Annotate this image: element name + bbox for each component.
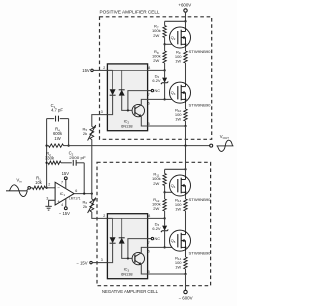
svg-text:1W: 1W — [175, 207, 181, 212]
transistor of IC2 — [132, 104, 144, 116]
wire output up to trimmer R5 — [91, 140, 93, 194]
capacitor C1 4.7pF — [55, 116, 57, 122]
wire gate lead Q4 — [165, 191, 177, 193]
wire +600V down — [185, 12, 187, 21]
wire C1 to output line vertical — [68, 119, 70, 146]
transistor Q5 STW9NB90 — [170, 230, 191, 251]
resistor R12 100k 2W — [163, 199, 166, 211]
wire photodiode cathode vertical — [121, 70, 123, 90]
resistor R2 330k — [48, 161, 61, 164]
wire -15V to opto IC3 pin3 — [92, 262, 107, 264]
wire output line — [69, 145, 210, 147]
wire photodiode rail to pin8 — [113, 69, 148, 71]
svg-text:2W: 2W — [153, 33, 159, 38]
node negative chain junction — [184, 168, 186, 170]
wire base to pin7 — [128, 91, 148, 111]
svg-text:4.7 pF: 4.7 pF — [51, 108, 63, 113]
svg-text:2W: 2W — [153, 181, 159, 186]
svg-text:Q4: Q4 — [171, 183, 176, 189]
node R4 right junction — [67, 144, 69, 146]
svg-text:+: + — [57, 199, 60, 204]
wire C2 right — [76, 162, 84, 164]
wire opto IC3 pin5 to bus — [148, 273, 186, 275]
pin 7 NC stub — [148, 238, 152, 240]
resistor R10 100 1W — [184, 109, 187, 121]
node pin6 gate junction — [163, 98, 165, 100]
wire opto IC3 pin6 to junction — [148, 246, 165, 248]
LED of IC2 — [110, 89, 116, 95]
node pin6 gate junction negative — [163, 246, 165, 248]
wire Vin to R1 — [31, 187, 33, 189]
svg-text:330k: 330k — [45, 156, 55, 161]
wire Q3 source down — [185, 103, 187, 109]
wire opto pin5 to bus — [148, 125, 186, 127]
node Q2 gate junction — [163, 43, 165, 45]
svg-text:5: 5 — [148, 270, 150, 274]
wire photodiode rail to pin8 — [113, 217, 148, 219]
transistor Q3 STW9NB90 — [170, 82, 191, 103]
wire chain to zener D2 — [164, 70, 166, 77]
svg-text:2: 2 — [48, 182, 50, 186]
svg-text:STW9NB90: STW9NB90 — [189, 103, 212, 108]
node inverting input junction — [45, 187, 47, 189]
node Vout terminal — [210, 144, 213, 147]
svg-text:Q3: Q3 — [171, 90, 176, 96]
node +600V terminal — [184, 9, 187, 12]
svg-text:NC: NC — [155, 237, 161, 241]
wire pin2 internal rail — [107, 217, 112, 219]
svg-text:1W: 1W — [175, 59, 181, 64]
svg-text:3: 3 — [46, 197, 48, 201]
svg-text:1W: 1W — [175, 265, 181, 270]
wire gate lead Q3 — [165, 98, 177, 100]
wire R1 to op-amp — [46, 187, 56, 189]
transistor Q4 STW9NB90 — [170, 175, 191, 196]
resistor R7 100k 2W — [163, 26, 166, 38]
wire R4 to junction — [64, 145, 69, 147]
wire chain top negative — [164, 169, 166, 173]
svg-text:− 15V: − 15V — [76, 260, 87, 265]
wire opto pin6 to junction — [148, 98, 165, 100]
resistor R14 100 1W — [184, 257, 187, 269]
trimmer R6 2k — [90, 199, 94, 212]
op-amp IC1 LM7171 — [55, 182, 74, 205]
svg-text:VOUT: VOUT — [220, 134, 229, 140]
svg-text:+600V: +600V — [178, 3, 191, 8]
svg-text:7: 7 — [61, 181, 63, 185]
wire Q4 drain up — [185, 169, 187, 175]
wire R2 to C2 — [61, 162, 72, 164]
node pin8 chain junction — [163, 69, 165, 71]
wire trimmer R5 to opto pin3 — [92, 115, 108, 127]
wire base to pin7 — [128, 239, 148, 259]
svg-text:Q2: Q2 — [171, 35, 176, 41]
node Q4 gate junction — [163, 191, 165, 193]
wire R11 to gate node — [164, 186, 166, 193]
wire pin2 internal rail — [107, 69, 112, 71]
wire LED cathode to pin3 — [107, 243, 112, 263]
wire R9 to Q3 drain — [185, 63, 187, 82]
node base junction — [127, 109, 129, 111]
wire LED anode vertical — [112, 70, 114, 89]
node trimmer bus junction — [91, 192, 93, 194]
wire C1 branch left — [47, 118, 55, 120]
wire to -600V terminal — [185, 274, 187, 290]
svg-text:3: 3 — [101, 110, 103, 114]
wire zener to pin6 node — [164, 83, 166, 100]
wire op-amp output — [74, 193, 92, 195]
wire bus to output line — [185, 126, 187, 146]
resistor R8 100k 2W — [163, 51, 166, 63]
node feedback left R4 junction — [45, 144, 47, 146]
svg-text:2: 2 — [103, 66, 105, 70]
wire C2 down to op-amp output — [83, 163, 85, 194]
optocoupler IC3 6N138 body — [107, 214, 147, 279]
resistor R4 600k 1W — [49, 144, 64, 147]
node C2 output junction — [83, 192, 85, 194]
svg-text:8: 8 — [148, 214, 150, 218]
svg-text:6.2V: 6.2V — [152, 78, 161, 83]
node rail junction — [184, 20, 186, 22]
wire output down to trimmer R6 — [91, 194, 93, 199]
svg-text:POSITIVE AMPLIFIER CELL: POSITIVE AMPLIFIER CELL — [100, 9, 160, 14]
node base junction — [127, 257, 129, 259]
svg-text:6.2V: 6.2V — [152, 226, 161, 231]
svg-text:1W: 1W — [54, 136, 60, 141]
wire Q5 source down — [185, 251, 187, 257]
svg-text:15V: 15V — [62, 171, 70, 176]
wire 15V to opto pin2 — [93, 69, 107, 71]
svg-text:NC: NC — [155, 89, 161, 93]
positive amplifier cell dashed box — [100, 17, 212, 140]
svg-text:8: 8 — [148, 66, 150, 70]
-15V supply terminal — [65, 199, 67, 207]
wire Q4 source down — [185, 196, 187, 199]
node output bus junction — [184, 144, 186, 146]
wire LED anode vertical — [112, 218, 114, 237]
wire trimmer R6 to opto IC3 pin2 — [92, 212, 108, 218]
resistor R9 100 1W — [184, 51, 187, 63]
wire LED cathode to pin3 — [107, 95, 112, 115]
wire chain to zener D3 — [164, 218, 166, 225]
wire photodiode anode to base node — [122, 243, 132, 258]
svg-text:−: − — [57, 185, 60, 190]
photodiode of IC2 — [119, 90, 125, 96]
wire chain top — [164, 21, 166, 25]
resistor R11 100k 2W — [163, 174, 166, 186]
wire Q2 drain to rail — [185, 21, 187, 27]
svg-text:IC1: IC1 — [60, 191, 66, 197]
wire zener to pin6 node negative — [164, 231, 166, 248]
wire R12 to pin8 node — [164, 192, 166, 199]
wire non-inverting input — [49, 200, 56, 206]
svg-text:6: 6 — [148, 250, 150, 254]
svg-text:2000 pF: 2000 pF — [69, 155, 86, 160]
svg-text:2k: 2k — [83, 131, 87, 136]
transistor Q2 STW9NB90 — [170, 27, 191, 48]
node pin5 junction negative — [184, 273, 186, 275]
node pin8 chain junction negative — [163, 217, 165, 219]
node R2 branch junction — [45, 162, 47, 164]
wire emitter to pin5 — [141, 117, 147, 126]
svg-text:STW9NB90: STW9NB90 — [189, 49, 212, 54]
wire opto pin8 to chain — [148, 69, 165, 71]
ground — [45, 205, 51, 207]
svg-text:5: 5 — [148, 122, 150, 126]
wire emitter to pin5 — [141, 265, 147, 274]
svg-text:3: 3 — [101, 258, 103, 262]
resistor R1 10k — [33, 186, 46, 189]
node Vout sine symbol — [217, 145, 234, 147]
trimmer R5 2k — [90, 127, 94, 140]
svg-text:NEGATIVE AMPLIFIER CELL: NEGATIVE AMPLIFIER CELL — [102, 289, 158, 294]
capacitor C2 2000pF — [72, 160, 74, 166]
node -600V terminal — [184, 290, 187, 293]
negative amplifier cell dashed box — [97, 162, 211, 285]
svg-text:− 600V: − 600V — [178, 296, 192, 301]
wire photodiode cathode vertical — [121, 218, 123, 238]
node Vin source — [6, 188, 29, 191]
wire feedback bus vertical — [46, 119, 48, 188]
transistor of IC3 — [132, 252, 144, 264]
wire C1 branch right — [60, 118, 69, 120]
svg-text:Vin: Vin — [16, 178, 22, 184]
zener D3 6.2V — [162, 226, 167, 231]
wire R14 to pin5 node negative — [185, 269, 187, 274]
svg-text:2k: 2k — [83, 204, 87, 209]
wire gate lead Q2 — [165, 43, 177, 45]
svg-text:6: 6 — [148, 102, 150, 106]
svg-text:STW9NB90: STW9NB90 — [189, 251, 212, 256]
svg-text:1W: 1W — [175, 117, 181, 122]
resistor R13 100 1W — [184, 199, 187, 211]
wire bus to R4 — [47, 145, 49, 147]
wire R8 to pin8 node — [164, 44, 166, 51]
svg-text:7: 7 — [148, 241, 150, 245]
svg-text:− 15V: − 15V — [59, 211, 70, 216]
wire rail to gate chain — [165, 20, 186, 22]
wire gate lead Q5 — [165, 246, 177, 248]
svg-text:10k: 10k — [35, 180, 43, 185]
svg-text:2W: 2W — [153, 58, 159, 63]
wire opto IC3 pin8 to chain — [148, 217, 165, 219]
svg-text:4: 4 — [61, 203, 63, 207]
svg-text:Q5: Q5 — [171, 238, 176, 244]
wire chain connect negative — [165, 168, 186, 170]
wire collector to pin6 — [141, 99, 147, 104]
LED of IC3 — [110, 237, 116, 243]
wire Q2 source down — [185, 48, 187, 51]
pin 7 NC stub — [148, 90, 152, 92]
svg-text:7: 7 — [148, 93, 150, 97]
svg-text:2: 2 — [103, 214, 105, 218]
wire R10 to pin5 node — [185, 121, 187, 126]
svg-text:6N138: 6N138 — [121, 271, 132, 276]
zener D2 6.2V — [162, 78, 167, 83]
svg-text:2W: 2W — [153, 206, 159, 211]
svg-text:LM7171: LM7171 — [69, 195, 81, 200]
wire R13 to Q5 drain — [185, 211, 187, 230]
wire output bus to negative cell — [185, 146, 187, 170]
wire R7 to gate node — [164, 38, 166, 45]
svg-text:15V: 15V — [82, 68, 90, 73]
node pin5 junction — [184, 125, 186, 127]
wire collector to pin6 — [141, 247, 147, 252]
optocoupler IC2 6N138 body — [107, 64, 147, 131]
photodiode of IC3 — [119, 238, 125, 244]
wire photodiode anode to base node — [122, 95, 132, 110]
svg-text:6: 6 — [75, 189, 77, 193]
svg-text:6N138: 6N138 — [121, 123, 132, 128]
+15V supply terminal — [65, 180, 67, 189]
svg-text:STW9NB90: STW9NB90 — [189, 197, 212, 202]
